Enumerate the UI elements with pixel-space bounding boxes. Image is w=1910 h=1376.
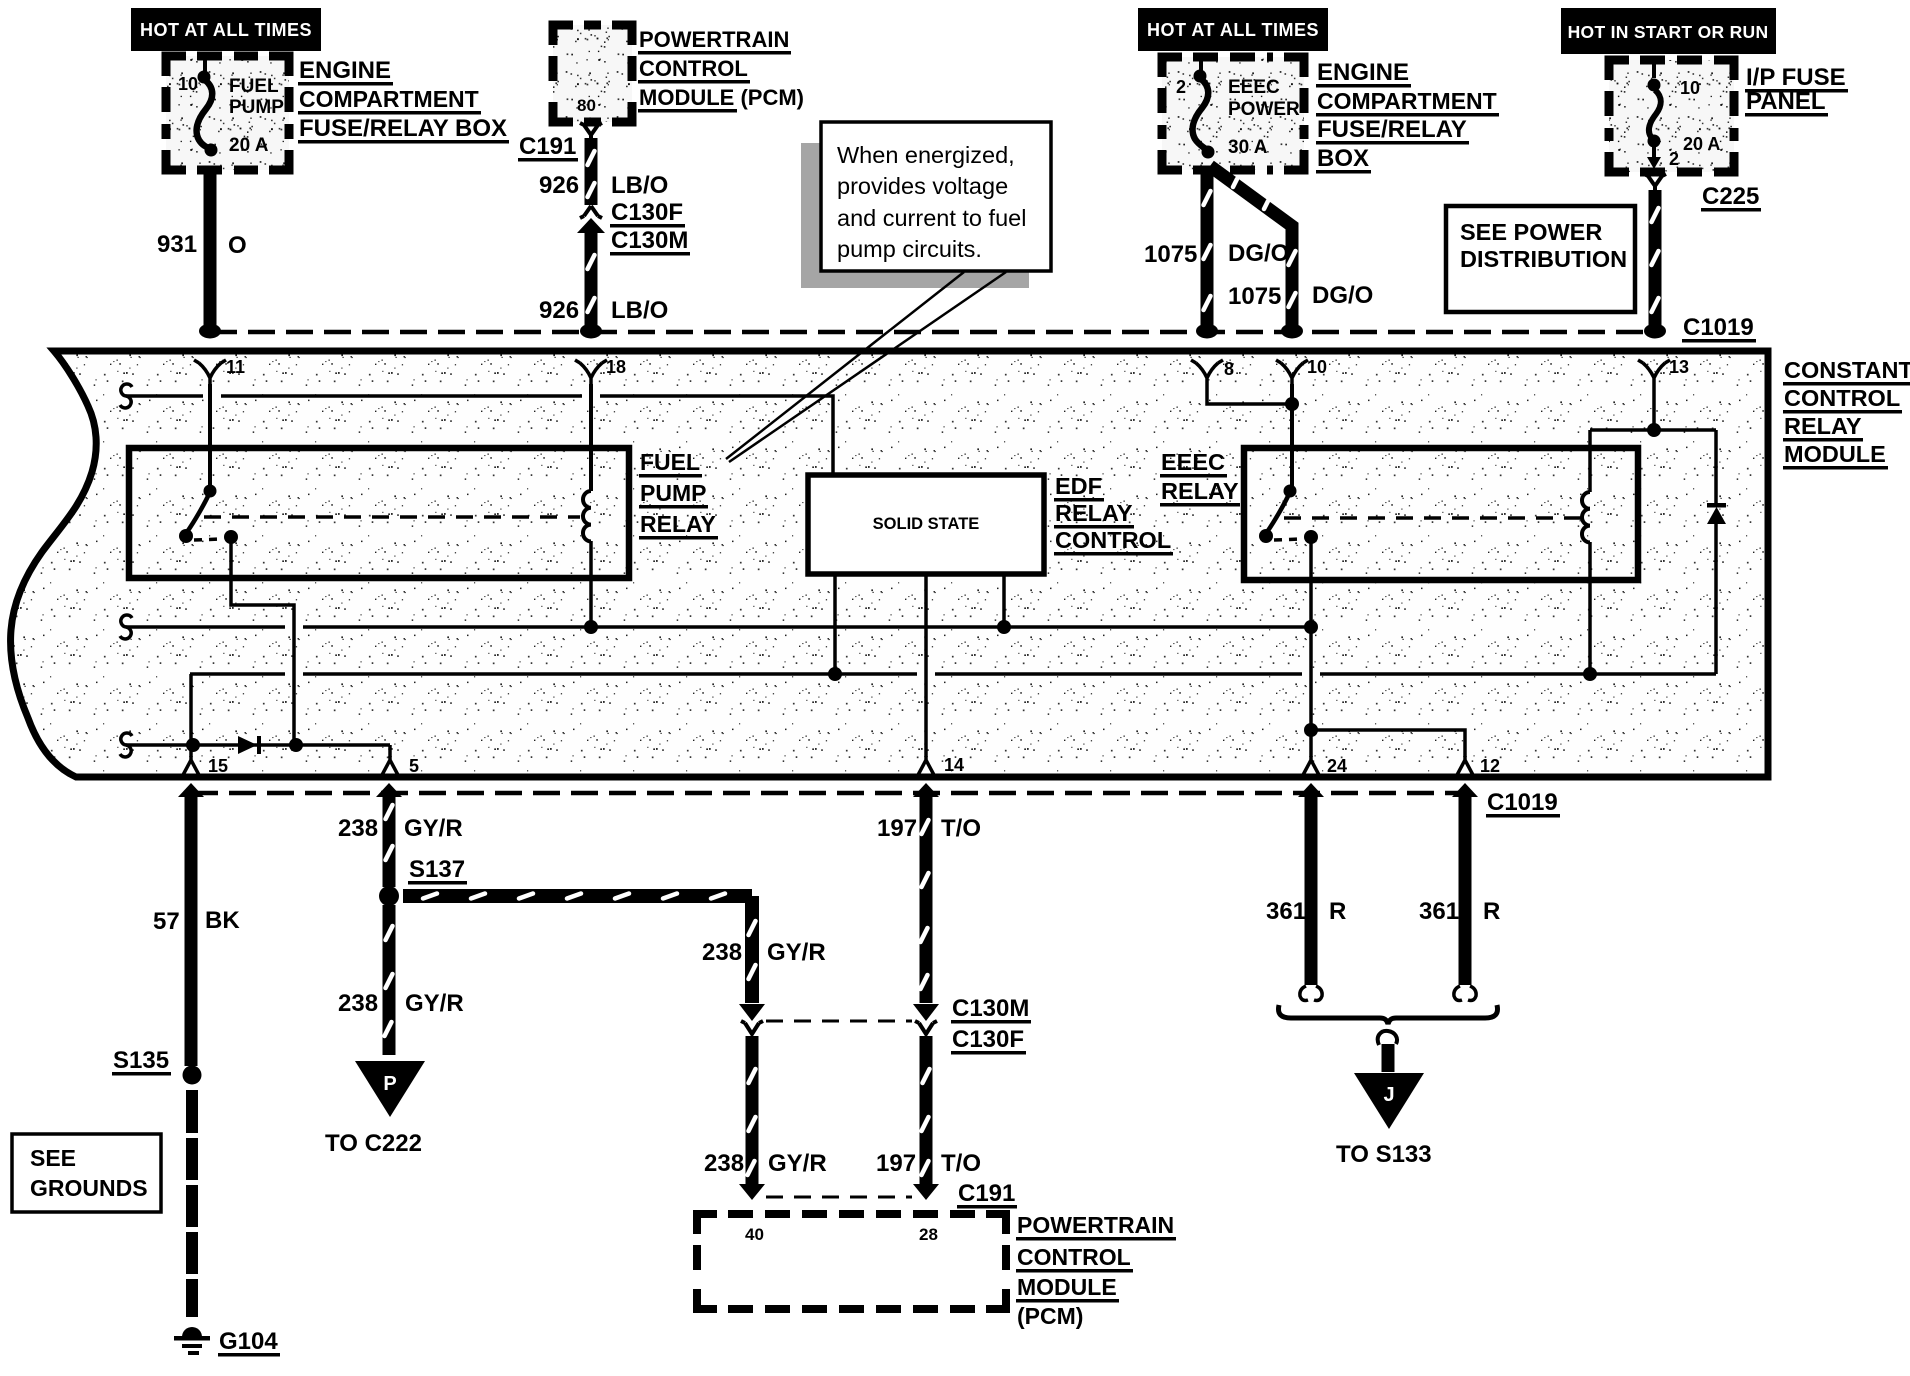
svg-text:DG/O: DG/O <box>1228 240 1289 267</box>
svg-text:S137: S137 <box>409 856 465 883</box>
svg-text:30 A: 30 A <box>1228 137 1268 158</box>
svg-text:1075: 1075 <box>1144 241 1197 268</box>
svg-text:(PCM): (PCM) <box>1017 1303 1083 1329</box>
labels: 57 BK <box>153 907 240 935</box>
svg-text:80: 80 <box>577 96 596 115</box>
label: ENGINE COMPARTMENT FUSE/RELAY BOX (left) <box>298 57 509 144</box>
svg-text:EDF: EDF <box>1055 473 1102 499</box>
svg-text:J: J <box>1383 1084 1394 1106</box>
svg-text:DISTRIBUTION: DISTRIBUTION <box>1460 246 1627 272</box>
labels: 926 LB/O <box>539 172 668 324</box>
svg-text:T/O: T/O <box>941 815 981 842</box>
svg-text:S135: S135 <box>113 1047 169 1074</box>
svg-text:C1019: C1019 <box>1487 789 1558 816</box>
wire to G104 (dashed thick) <box>186 1090 198 1317</box>
svg-text:14: 14 <box>944 755 964 775</box>
pin 8 <box>1191 359 1234 384</box>
svg-text:When energized,: When energized, <box>837 142 1015 168</box>
labels: 238 GY/R / 197 T/O (lower) <box>704 1150 981 1177</box>
wire 197 T/O (pin 14 to C130) <box>913 783 939 1003</box>
EEEC relay coil <box>1582 430 1590 674</box>
svg-text:COMPARTMENT: COMPARTMENT <box>299 86 479 112</box>
wire to C1019 (I/P) <box>1644 190 1666 339</box>
svg-text:40: 40 <box>745 1225 764 1244</box>
svg-text:CONTROL: CONTROL <box>1055 527 1171 553</box>
label: C1019 (bottom) <box>1486 789 1560 818</box>
svg-text:GY/R: GY/R <box>404 815 463 842</box>
svg-text:R: R <box>1483 898 1500 925</box>
internal wire y=674 from pin15 riser to diode branch <box>190 672 1716 676</box>
connector C191 (bottom) arrows <box>739 1184 939 1200</box>
EEEC relay box <box>1244 448 1638 580</box>
fuel pump relay mechanical link (dashed) <box>204 515 580 519</box>
svg-text:POWERTRAIN: POWERTRAIN <box>1017 1212 1174 1238</box>
svg-text:RELAY: RELAY <box>1055 500 1133 526</box>
labels: 197 T/O (upper) <box>877 815 981 842</box>
wire 361 R (pin 12) <box>1452 783 1478 1001</box>
svg-text:1075: 1075 <box>1228 283 1281 310</box>
svg-text:O: O <box>228 232 247 259</box>
wire: solid state center pin to pin 14 <box>924 574 928 757</box>
svg-text:361: 361 <box>1419 898 1459 925</box>
svg-text:and current to fuel: and current to fuel <box>837 205 1026 231</box>
wire 1075 DG/O (straight) <box>1196 168 1218 339</box>
wire: pin 11 to relay contact <box>208 384 212 490</box>
callout note box with shadow <box>801 122 1051 288</box>
label: C225 <box>1701 183 1761 212</box>
svg-text:POWER: POWER <box>1228 99 1300 120</box>
svg-text:C130M: C130M <box>611 227 688 254</box>
svg-text:28: 28 <box>919 1225 938 1244</box>
label: C191 (top) <box>518 133 578 162</box>
wire 238 GY/R (S137 south to C222) <box>385 905 393 1055</box>
svg-text:2: 2 <box>1669 149 1679 169</box>
pin 10 <box>1276 357 1327 384</box>
svg-text:RELAY: RELAY <box>1784 413 1862 439</box>
pin 15 <box>177 756 228 776</box>
wire 238 GY/R (S137 east to C130) <box>403 894 756 1004</box>
svg-text:12: 12 <box>1480 756 1500 776</box>
svg-text:LB/O: LB/O <box>611 297 668 324</box>
svg-text:GY/R: GY/R <box>405 990 464 1017</box>
pin 5 <box>376 756 419 776</box>
splice bracket joining 361 wires <box>1279 1005 1498 1072</box>
svg-text:pump circuits.: pump circuits. <box>837 236 982 262</box>
svg-text:T/O: T/O <box>941 1150 981 1177</box>
note box: SEE GROUNDS <box>12 1134 161 1212</box>
fuel pump relay box <box>129 448 629 578</box>
connector C130M/C130F (bottom, right wire) <box>913 1004 939 1034</box>
Constant Control Relay Module body (torn-edge outline) <box>11 351 1768 777</box>
note box: SEE POWER DISTRIBUTION <box>1446 206 1635 312</box>
fuse F1: FUEL PUMP 20A (engine compartment fuse/relay box) <box>166 56 289 170</box>
svg-text:COMPARTMENT: COMPARTMENT <box>1317 88 1497 114</box>
svg-text:PUMP: PUMP <box>640 480 706 506</box>
svg-text:GY/R: GY/R <box>768 1150 827 1177</box>
svg-text:C130M: C130M <box>952 995 1029 1022</box>
svg-text:238: 238 <box>704 1150 744 1177</box>
pin 13 <box>1638 357 1689 384</box>
label: EEEC RELAY <box>1160 449 1240 507</box>
labels: 238 GY/R (upper) <box>338 815 463 842</box>
svg-text:FUEL: FUEL <box>229 76 279 97</box>
svg-text:TO S133: TO S133 <box>1336 1141 1432 1168</box>
wire 926 LB/O upper segment <box>588 138 595 205</box>
off-page arrow J (TO S133) <box>1336 1073 1432 1168</box>
connector C225 <box>1644 174 1666 192</box>
svg-text:10: 10 <box>1307 357 1327 377</box>
wire: fuel pump relay NO contact to y=745 <box>231 540 294 742</box>
connector C130M/C130F (bottom, left wire) <box>739 1004 765 1034</box>
wire: pin 13 stub <box>1652 384 1656 430</box>
fuel pump relay contact arm <box>179 485 238 545</box>
junction dot (193,745) <box>186 738 200 752</box>
svg-text:RELAY: RELAY <box>1161 478 1239 504</box>
wire: y=430 link to coil and diode <box>1590 428 1716 432</box>
wire: EEEC NO contact down to pins 24/12 <box>1311 541 1465 757</box>
svg-text:FUEL: FUEL <box>640 449 700 475</box>
wire: pin 8 stub to junction <box>1207 384 1292 404</box>
solid state box U1 <box>808 475 1044 574</box>
svg-text:BOX: BOX <box>1317 145 1369 172</box>
ground G104 <box>174 1327 210 1355</box>
wire 197 T/O (C130 to C191) <box>922 1036 930 1188</box>
pin 18 <box>575 357 626 384</box>
svg-text:926: 926 <box>539 297 579 324</box>
svg-text:CONSTANT: CONSTANT <box>1784 357 1910 383</box>
banner: HOT AT ALL TIMES (left) <box>131 8 321 51</box>
svg-text:57: 57 <box>153 908 180 935</box>
svg-text:MODULE: MODULE <box>1784 441 1886 467</box>
svg-text:MODULE: MODULE <box>1017 1274 1117 1300</box>
svg-text:EEEC: EEEC <box>1228 77 1280 98</box>
svg-text:POWERTRAIN: POWERTRAIN <box>639 27 789 52</box>
svg-text:R: R <box>1329 898 1346 925</box>
svg-text:DG/O: DG/O <box>1312 282 1373 309</box>
svg-text:361: 361 <box>1266 898 1306 925</box>
svg-text:TO C222: TO C222 <box>325 1130 422 1157</box>
diode CR2 (clamp) <box>1707 430 1726 674</box>
svg-text:11: 11 <box>226 357 245 377</box>
svg-text:20 A: 20 A <box>229 135 269 156</box>
wire: solid state left pin to y=674 <box>833 574 837 674</box>
wire: pin 5 stub <box>388 745 392 757</box>
svg-text:5: 5 <box>409 756 419 776</box>
svg-text:BK: BK <box>205 907 240 934</box>
svg-text:197: 197 <box>877 815 917 842</box>
labels: C130M / C130F <box>951 995 1031 1055</box>
svg-text:HOT IN START OR RUN: HOT IN START OR RUN <box>1568 22 1769 42</box>
label: I/P FUSE PANEL <box>1745 64 1848 117</box>
svg-text:SOLID STATE: SOLID STATE <box>873 515 980 533</box>
connector line C1019 (bottom, dashed) <box>191 791 1465 796</box>
fuse F3: I/P fuse panel 20A <box>1609 60 1734 172</box>
svg-text:I/P FUSE: I/P FUSE <box>1746 64 1846 91</box>
svg-text:SEE POWER: SEE POWER <box>1460 219 1602 245</box>
splice S137 <box>379 856 467 906</box>
svg-text:ENGINE: ENGINE <box>1317 59 1409 86</box>
svg-text:197: 197 <box>876 1150 916 1177</box>
wire 926 LB/O lower segment <box>580 230 602 339</box>
svg-text:C1019: C1019 <box>1683 314 1754 341</box>
svg-text:MODULE (PCM): MODULE (PCM) <box>639 85 804 110</box>
label: CONSTANT CONTROL RELAY MODULE <box>1783 357 1910 470</box>
label: C191 (bottom) <box>957 1180 1017 1209</box>
diode CR1 on y=745 line <box>238 736 261 754</box>
pin 24 <box>1297 756 1347 776</box>
PCM connector box (bottom, dashed) <box>697 1214 1006 1309</box>
svg-text:LB/O: LB/O <box>611 172 668 199</box>
connector line C1019 (top, dashed) <box>210 330 1655 335</box>
svg-text:238: 238 <box>702 939 742 966</box>
svg-text:PANEL: PANEL <box>1746 88 1826 115</box>
label: ENGINE COMPARTMENT FUSE/RELAY BOX (right) <box>1316 59 1499 174</box>
svg-text:24: 24 <box>1327 756 1347 776</box>
svg-text:238: 238 <box>338 990 378 1017</box>
fuse F2: EEEC POWER 30A <box>1162 57 1304 170</box>
svg-text:GY/R: GY/R <box>767 939 826 966</box>
svg-text:10: 10 <box>1680 78 1700 98</box>
connector C191 (top) <box>580 123 602 141</box>
svg-text:C225: C225 <box>1702 183 1759 210</box>
svg-text:SEE: SEE <box>30 1145 76 1171</box>
wire 931 O (fuse to C1019) <box>199 170 221 339</box>
svg-text:CONTROL: CONTROL <box>1017 1244 1131 1270</box>
banner: HOT IN START OR RUN <box>1561 8 1776 54</box>
svg-text:15: 15 <box>208 756 228 776</box>
labels: 238 GY/R (middle) <box>702 939 826 966</box>
pin 14 <box>912 755 964 776</box>
svg-text:G104: G104 <box>219 1328 278 1355</box>
PCM connector box (top) <box>553 25 632 122</box>
internal bus wire (hook end, y=396) <box>120 384 833 473</box>
svg-text:C191: C191 <box>519 133 576 160</box>
svg-text:ENGINE: ENGINE <box>299 57 391 84</box>
connector line C130 (dashed) <box>766 1020 912 1023</box>
label: 931 O <box>157 231 247 259</box>
svg-text:8: 8 <box>1224 359 1234 379</box>
labels: 238 GY/R (lower left) <box>338 990 464 1017</box>
label: FUEL PUMP RELAY <box>639 449 718 540</box>
junction dot (296,745) <box>289 738 303 752</box>
labels: 361 R / 361 R <box>1266 898 1500 925</box>
labels: 1075 DG/O <box>1144 240 1373 310</box>
wire: pin 15 riser <box>189 674 193 757</box>
svg-text:HOT AT ALL TIMES: HOT AT ALL TIMES <box>1147 20 1319 40</box>
junction dot (1292,404) <box>1285 397 1299 411</box>
svg-text:10: 10 <box>178 74 198 94</box>
svg-text:GROUNDS: GROUNDS <box>30 1175 148 1201</box>
wire 1075 DG/O (diagonal branch) <box>1210 166 1303 339</box>
label: G104 <box>218 1328 280 1357</box>
svg-text:provides voltage: provides voltage <box>837 173 1008 199</box>
wire 361 R (pin 24) <box>1298 783 1324 1001</box>
wire 57 BK (pin 15 to S135) <box>178 783 204 1066</box>
connector C130F/C130M (top) <box>577 206 605 233</box>
svg-text:20 A: 20 A <box>1683 134 1720 154</box>
svg-text:926: 926 <box>539 172 579 199</box>
svg-text:HOT AT ALL TIMES: HOT AT ALL TIMES <box>140 20 312 40</box>
fuel pump relay coil <box>583 384 591 627</box>
wire 238 GY/R (C130 to C191) <box>748 1036 756 1188</box>
wire: solid state right pin to y=627 <box>1002 574 1006 627</box>
svg-text:2: 2 <box>1176 77 1186 97</box>
junction dot coil to y=627 <box>584 620 598 634</box>
svg-text:C130F: C130F <box>611 199 683 226</box>
svg-text:13: 13 <box>1669 357 1689 377</box>
labels: C130F / C130M <box>610 199 690 256</box>
internal bus wire (hook end, y=627) <box>120 615 1311 639</box>
svg-text:C191: C191 <box>958 1180 1015 1207</box>
label: POWERTRAIN CONTROL MODULE (PCM) (bottom) <box>1016 1212 1176 1329</box>
svg-text:931: 931 <box>157 231 197 258</box>
svg-text:238: 238 <box>338 815 378 842</box>
splice S135 <box>112 1047 202 1085</box>
label: POWERTRAIN CONTROL MODULE (PCM) (top) <box>638 27 804 113</box>
EEEC relay mechanical link (dashed) <box>1284 516 1582 520</box>
svg-text:CONTROL: CONTROL <box>1784 385 1900 411</box>
connector line C191 (dashed) <box>766 1196 912 1199</box>
svg-text:PUMP: PUMP <box>229 97 284 118</box>
internal bus wire (hook end, y=745) <box>120 733 390 757</box>
EEEC relay contact arm <box>1259 485 1318 545</box>
svg-text:FUSE/RELAY BOX: FUSE/RELAY BOX <box>299 115 507 142</box>
svg-text:FUSE/RELAY: FUSE/RELAY <box>1317 116 1467 143</box>
svg-text:RELAY: RELAY <box>640 511 716 537</box>
svg-text:EEEC: EEEC <box>1161 449 1225 475</box>
label: EDF RELAY CONTROL <box>1054 473 1173 556</box>
svg-text:18: 18 <box>606 357 626 377</box>
off-page arrow P (TO C222) <box>325 1061 425 1157</box>
wire 238 GY/R (pin 5 to S137) <box>376 783 402 887</box>
pin 11 <box>194 357 245 384</box>
wire: pin 10 to EEEC contact <box>1290 384 1294 490</box>
svg-text:CONTROL: CONTROL <box>639 56 748 81</box>
callout pointer lines <box>726 272 1006 462</box>
svg-text:P: P <box>383 1073 396 1095</box>
label: C1019 (top) <box>1682 314 1756 343</box>
svg-text:C130F: C130F <box>952 1026 1024 1053</box>
banner: HOT AT ALL TIMES (right) <box>1138 8 1328 51</box>
pin 12 <box>1451 756 1500 776</box>
